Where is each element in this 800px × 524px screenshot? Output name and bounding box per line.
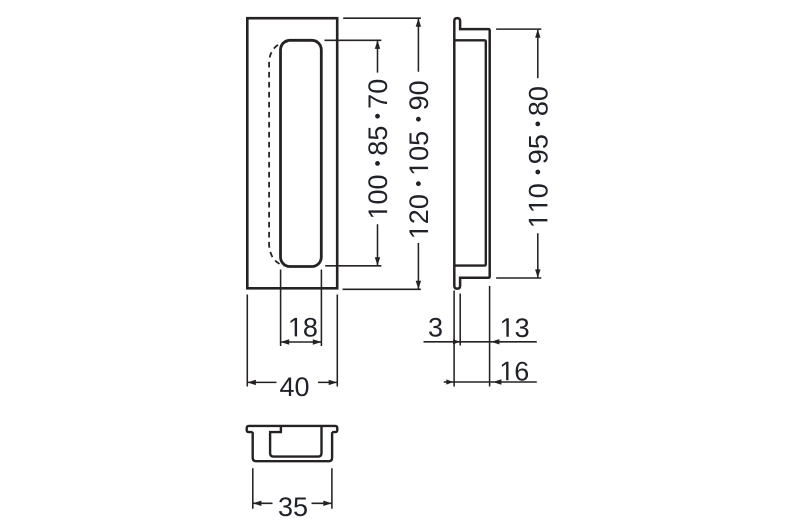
svg-text:3: 3: [428, 312, 443, 342]
bottom section outer outline: [247, 426, 338, 461]
svg-text:85: 85: [363, 126, 393, 156]
label 18: [291, 318, 298, 337]
label 13: [502, 318, 509, 337]
dimension line 110·95·80: [537, 29, 539, 278]
extension line side-top: [496, 28, 541, 30]
dimension line 40: [247, 381, 337, 383]
extension line side-bottom: [496, 277, 541, 279]
svg-text:40: 40: [279, 372, 309, 402]
svg-text:0: 0: [523, 183, 553, 198]
svg-text:90: 90: [404, 80, 434, 110]
extension lines 35: [253, 468, 332, 509]
extension line recess-top: [325, 39, 382, 41]
front view outer rectangle: [247, 18, 337, 288]
label 110·95·80: [523, 86, 553, 226]
svg-text:35: 35: [278, 492, 308, 522]
label 16: [502, 362, 509, 381]
dimension line 16: [444, 381, 537, 383]
label 120·105·90: [404, 80, 434, 236]
svg-text:20: 20: [404, 194, 434, 224]
svg-text:70: 70: [363, 79, 393, 109]
dimension line 18: [281, 341, 322, 343]
svg-text:95: 95: [523, 134, 553, 164]
hidden pocket dashed outline: [269, 42, 287, 266]
dimension line 100·85·70: [377, 40, 379, 265]
svg-text:05: 05: [404, 131, 434, 161]
extension line outer-bottom: [343, 288, 421, 290]
svg-text:6: 6: [514, 356, 529, 386]
svg-text:3: 3: [515, 313, 530, 343]
svg-text:80: 80: [523, 86, 553, 116]
label 100·85·70: [363, 79, 393, 217]
extension lines below front view: [247, 270, 337, 387]
bottom section cavity: [270, 426, 321, 457]
svg-text:8: 8: [303, 312, 318, 342]
dimension line 3 / 13: [424, 341, 537, 343]
side view outline: [454, 18, 489, 289]
front view recess rounded rectangle: [281, 40, 322, 266]
svg-text:00: 00: [363, 174, 393, 204]
side view inner face lines: [454, 40, 486, 265]
dimension line 120·105·90: [417, 18, 419, 289]
extension line recess-bottom: [325, 265, 381, 267]
extension lines below side view: [454, 286, 490, 387]
dimension line 35: [253, 502, 332, 504]
extension line outer-top: [343, 17, 421, 19]
